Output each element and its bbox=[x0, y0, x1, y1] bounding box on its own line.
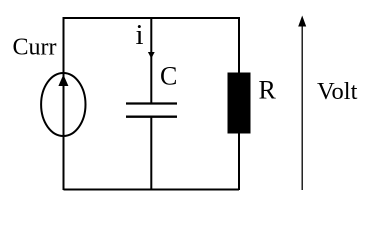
svg-text:Curr: Curr bbox=[13, 34, 57, 60]
svg-text:i: i bbox=[136, 19, 144, 51]
svg-text:Volt: Volt bbox=[317, 78, 358, 105]
svg-text:C: C bbox=[160, 62, 177, 91]
svg-text:R: R bbox=[259, 76, 277, 105]
